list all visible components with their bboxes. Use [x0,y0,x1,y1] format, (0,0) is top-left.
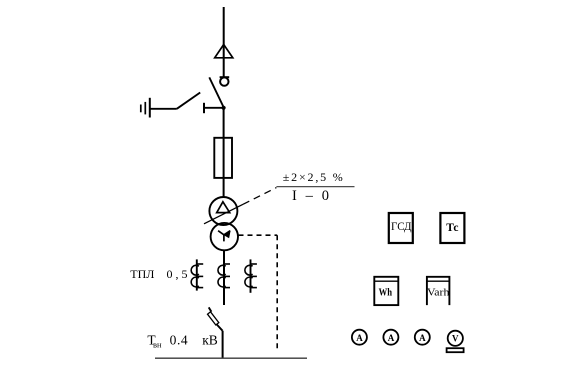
current transformer TA1 (phase A) [191,259,203,290]
dashed measuring-circuit line (vertical) [276,235,278,352]
voltmeter PV [447,331,464,353]
svg-text:A: A [388,333,395,343]
svg-text:0.4: 0.4 [170,333,189,348]
wire: incoming feeder line [223,7,225,77]
earthing switch fixed contact bar [204,103,224,113]
device box Тс [440,213,464,243]
wire: ground branch [150,108,177,110]
ammeter PA1 [352,330,367,345]
svg-text:Varh: Varh [427,287,450,298]
energy meter box Wh [374,277,398,305]
svg-text:±2×2,5 %: ±2×2,5 % [283,170,345,184]
svg-text:кВ: кВ [202,333,218,348]
wire: transformer to LV switch [223,250,225,305]
ammeter PA2 [383,330,398,345]
transformer T secondary winding (wye) [211,223,238,250]
svg-text:ГСД: ГСД [391,219,412,233]
energy meter box Varh (open bottom) [427,277,450,305]
tap-changer leader line (solid part through winding) [204,204,243,224]
transformer T primary winding (delta) [209,197,237,225]
current transformer TA2 (phase B, on main line) [218,264,230,288]
LV breaker open blade with fuse loop [208,307,223,330]
ground symbol [141,98,150,118]
dashed measuring-circuit line (horizontal) [239,234,278,236]
svg-text:вн: вн [153,340,162,350]
ammeter PA3 [415,330,430,345]
device box ГСД [389,213,413,243]
label rule (fraction bar) [276,186,354,188]
svg-text:A: A [419,333,426,343]
wire: breaker to busbar [222,331,224,358]
disconnector open blade [209,77,224,107]
earthing switch open blade [177,93,200,109]
wire: junction to fuse [223,108,225,138]
wire: through fuse [223,138,225,198]
svg-text:Wh: Wh [379,287,393,298]
svg-text:ТПЛ: ТПЛ [130,267,154,281]
svg-text:A: A [356,333,363,343]
fuse FU [214,138,232,178]
surge arrester / cable termination triangle [215,45,233,58]
tap-changer leader line (dashed part) [243,188,276,205]
disconnector fixed contact (cup) [220,77,230,86]
busbar 0.4 kV [155,357,307,359]
svg-text:V: V [452,334,459,344]
svg-text:I – 0: I – 0 [292,188,332,204]
svg-text:Тс: Тс [446,222,458,234]
current transformer TA3 (phase C) [245,259,257,292]
svg-text:0,5: 0,5 [167,267,191,281]
junction node [222,106,226,110]
